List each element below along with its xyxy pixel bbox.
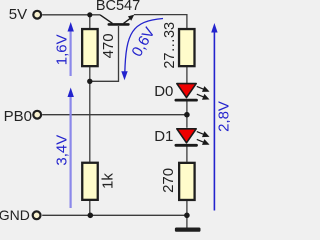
svg-text:2,8V: 2,8V — [215, 101, 230, 132]
svg-text:1k: 1k — [100, 173, 117, 189]
svg-text:GND: GND — [0, 207, 30, 223]
svg-text:D1: D1 — [154, 128, 173, 145]
svg-text:PB0: PB0 — [4, 108, 32, 125]
svg-text:1,6V: 1,6V — [54, 34, 71, 65]
svg-text:470: 470 — [100, 33, 117, 58]
svg-text:3,4V: 3,4V — [54, 135, 71, 166]
svg-text:5V: 5V — [9, 6, 27, 23]
svg-text:D0: D0 — [154, 83, 173, 100]
svg-text:27…33: 27…33 — [162, 22, 178, 69]
svg-text:270: 270 — [160, 168, 177, 193]
svg-text:BC547: BC547 — [96, 0, 140, 14]
